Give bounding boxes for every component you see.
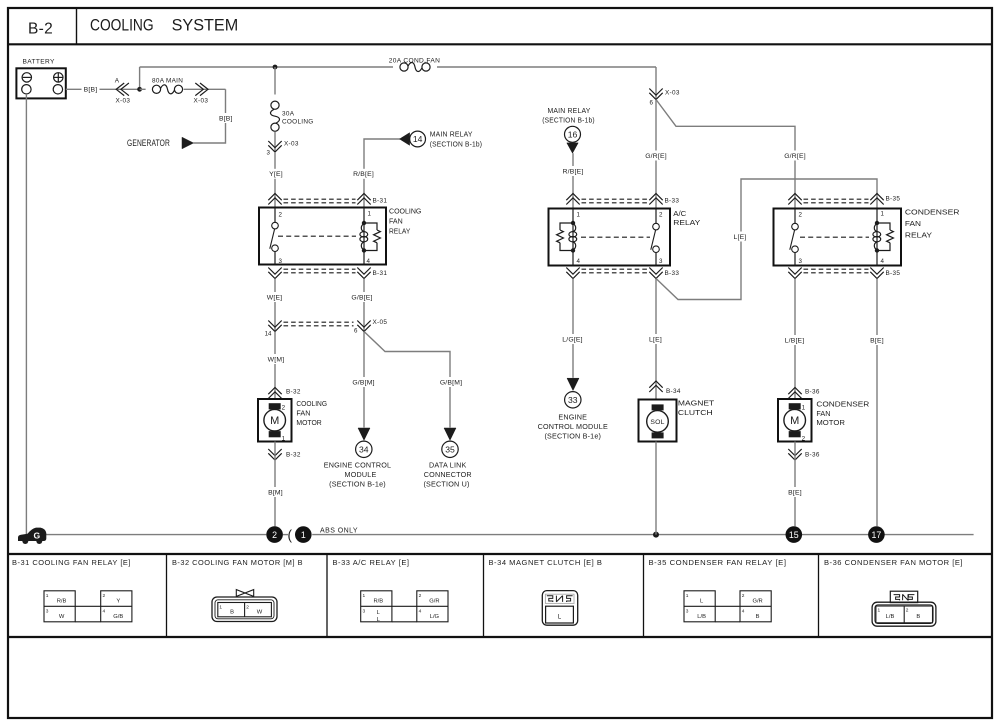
connector section bottom divider xyxy=(8,636,992,638)
battery negative terminal xyxy=(22,73,31,82)
connector X-03 chevron top right xyxy=(649,89,662,100)
connector B-31 chevron above relay pin 1 xyxy=(357,194,370,205)
connector B-36 key tab xyxy=(890,591,917,602)
svg-text:B[B]: B[B] xyxy=(219,115,233,122)
connector B-34 chevron above magnet clutch xyxy=(649,381,662,392)
connector X-03 chevron (battery side) xyxy=(116,83,129,96)
connector B-32 bowtie key xyxy=(236,590,253,597)
svg-text:B-2: B-2 xyxy=(28,21,53,38)
svg-text:COOLING: COOLING xyxy=(90,17,154,35)
wire magnet clutch to ground bus xyxy=(655,442,657,535)
svg-text:4: 4 xyxy=(367,258,371,265)
connector B-33 chevron above A/C relay pin 1 xyxy=(566,194,579,205)
connector B-32 housing xyxy=(212,597,277,622)
relay coil and resistor (condenser pins 1-4) xyxy=(876,209,878,224)
svg-text:1: 1 xyxy=(878,608,881,614)
connector grid left block xyxy=(684,591,715,622)
svg-text:CONDENSER: CONDENSER xyxy=(816,399,869,408)
svg-text:R/B[E]: R/B[E] xyxy=(563,168,584,175)
wire junction to 80A fuse xyxy=(140,88,146,90)
svg-text:R/B[E]: R/B[E] xyxy=(353,171,374,178)
svg-text:B-32 COOLING FAN MOTOR [M] B: B-32 COOLING FAN MOTOR [M] B xyxy=(172,558,303,567)
wire fuse to X-03 chevron xyxy=(274,132,276,153)
svg-text:2: 2 xyxy=(419,593,422,599)
svg-text:Y: Y xyxy=(116,599,120,605)
svg-text:L/G: L/G xyxy=(430,614,440,620)
dashed tie lines of connector B-35 top xyxy=(804,198,869,200)
label G/R[E] right xyxy=(783,151,807,161)
svg-text:3: 3 xyxy=(267,150,271,157)
svg-text:35: 35 xyxy=(445,445,455,455)
ground circle 2 xyxy=(266,526,283,543)
svg-text:2: 2 xyxy=(799,212,803,219)
svg-text:CLUTCH: CLUTCH xyxy=(678,408,713,417)
wire relay pin3 to X-05 xyxy=(274,279,276,332)
connector B-34 housing xyxy=(542,591,577,626)
relay actuation dashed line (A/C) xyxy=(581,236,650,238)
svg-text:4: 4 xyxy=(103,609,106,615)
connector section column divider 4 xyxy=(643,554,645,637)
connector grid bridge lines xyxy=(715,605,740,607)
svg-text:6: 6 xyxy=(354,328,358,335)
arrow into 34 xyxy=(358,428,370,440)
connector section column divider 5 xyxy=(818,554,820,637)
wire pin 4 to ECM 33 xyxy=(572,279,574,378)
svg-text:MAIN RELAY: MAIN RELAY xyxy=(548,106,591,115)
dashed tie lines of connector B-33 bottom xyxy=(582,268,648,270)
label G/B[E] xyxy=(350,292,374,302)
relay actuation dashed line (condenser) xyxy=(800,236,869,238)
connector B-35 chevron below pin 3 xyxy=(788,268,801,279)
svg-text:FAN: FAN xyxy=(816,409,830,418)
node B+ junction dot xyxy=(137,87,142,92)
svg-text:ABS ONLY: ABS ONLY xyxy=(320,525,358,534)
label Y[E] xyxy=(267,169,285,179)
svg-text:1: 1 xyxy=(363,593,366,599)
svg-text:G/R: G/R xyxy=(429,599,439,605)
svg-text:2: 2 xyxy=(282,404,286,411)
dashed tie lines of connector B-31 bottom xyxy=(284,268,356,270)
connector X-03 chevron going down xyxy=(268,141,281,152)
dashed tie lines of connector X-05 xyxy=(284,321,354,323)
svg-text:1: 1 xyxy=(686,593,689,599)
svg-text:G/R[E]: G/R[E] xyxy=(784,153,806,160)
svg-text:G/R: G/R xyxy=(752,599,762,605)
svg-text:L[E]: L[E] xyxy=(649,336,662,343)
svg-text:L/B[E]: L/B[E] xyxy=(785,337,805,344)
svg-text:3: 3 xyxy=(686,609,689,615)
dashed tie lines of connector B-31 top xyxy=(284,198,356,200)
title bar vertical divider xyxy=(76,8,78,44)
battery lower-left post xyxy=(22,85,31,94)
label G/B[M] right xyxy=(439,377,464,387)
connector B-33 chevron below pin 3 xyxy=(649,268,662,279)
svg-text:B-32: B-32 xyxy=(286,388,301,395)
battery positive terminal xyxy=(54,73,63,82)
svg-text:G: G xyxy=(33,530,40,540)
connector B-32 cells xyxy=(218,603,272,617)
motor CONDENSER FAN MOTOR xyxy=(778,399,812,442)
label B[B] on battery wire xyxy=(82,84,100,94)
svg-text:MODULE: MODULE xyxy=(345,470,377,479)
svg-text:MAIN RELAY: MAIN RELAY xyxy=(430,130,473,139)
wire riser from B+ junction up to bus xyxy=(139,67,141,89)
label B[M] xyxy=(266,487,285,497)
svg-text:(SECTION U): (SECTION U) xyxy=(423,480,469,489)
label L[E] magnet clutch xyxy=(647,334,664,344)
relay box A/C RELAY xyxy=(549,209,671,266)
connector X-05 chevron left (pin 14) xyxy=(268,321,281,332)
relay box CONDENSER FAN RELAY xyxy=(774,209,902,266)
svg-text:RELAY: RELAY xyxy=(905,230,932,239)
wire branch X-03 pin6 to condenser relay switch xyxy=(656,100,795,209)
svg-text:L[E]: L[E] xyxy=(734,234,747,241)
svg-text:CONDENSER: CONDENSER xyxy=(905,208,960,217)
svg-text:33: 33 xyxy=(568,395,578,405)
svg-text:B-32: B-32 xyxy=(286,451,301,458)
svg-text:34: 34 xyxy=(359,445,369,455)
wire branch from X-05 pin 6 to data link connector xyxy=(364,332,450,428)
svg-text:4: 4 xyxy=(577,258,581,265)
svg-text:X-03: X-03 xyxy=(194,98,209,105)
svg-text:2: 2 xyxy=(272,530,277,540)
svg-text:B: B xyxy=(230,610,234,616)
svg-text:B-36 CONDENSER FAN MOTOR [E]: B-36 CONDENSER FAN MOTOR [E] xyxy=(824,558,963,567)
svg-text:3: 3 xyxy=(799,258,803,265)
svg-text:GENERATOR: GENERATOR xyxy=(127,138,170,148)
connector B-31 chevron above relay pin 2 xyxy=(268,194,281,205)
connector section column divider 2 xyxy=(326,554,328,637)
svg-text:MOTOR: MOTOR xyxy=(816,418,845,427)
fuse 20A COND.FAN xyxy=(400,63,408,71)
svg-text:3: 3 xyxy=(659,258,663,265)
connector grid bridge lines xyxy=(75,605,101,607)
svg-text:(SECTION B-1b): (SECTION B-1b) xyxy=(542,115,595,124)
connector B-36 chevron above motor xyxy=(788,388,801,399)
connector section top divider xyxy=(8,553,992,555)
svg-text:L/B: L/B xyxy=(886,614,895,620)
svg-text:L/G[E]: L/G[E] xyxy=(562,336,582,343)
label R/B[E] xyxy=(352,169,376,179)
wire bus right corner down to X-03 xyxy=(655,67,657,100)
label B[E] (motor ground) xyxy=(786,487,804,497)
svg-text:2: 2 xyxy=(906,608,909,614)
svg-text:M: M xyxy=(270,415,279,427)
svg-text:SYSTEM: SYSTEM xyxy=(172,17,239,35)
svg-text:M: M xyxy=(790,415,799,427)
relay coil and resistor (pins 1-4) xyxy=(363,208,365,224)
ground bus line left of circle 2 xyxy=(46,534,266,536)
svg-text:2: 2 xyxy=(246,604,249,610)
label G/B[M] left xyxy=(351,377,376,387)
connector B-35 chevron above condenser relay pin 1 xyxy=(870,194,883,205)
connector B-31 chevron below pin 3 xyxy=(268,268,281,279)
main relay 16 arrow (triangle pointing down) xyxy=(567,143,578,153)
svg-text:80A MAIN: 80A MAIN xyxy=(152,77,183,84)
svg-text:(: ( xyxy=(288,528,293,543)
svg-text:15: 15 xyxy=(789,530,799,540)
svg-text:B-35: B-35 xyxy=(886,270,901,277)
connector grid right block xyxy=(417,591,448,622)
connector X-05 chevron right (pin 6) xyxy=(357,321,370,332)
wire motor to ground circle 15 xyxy=(794,442,796,527)
svg-text:SOL: SOL xyxy=(650,419,664,426)
connector grid right block xyxy=(740,591,771,622)
svg-text:MAGNET: MAGNET xyxy=(678,399,715,408)
dashed tie lines of connector B-33 top xyxy=(582,198,648,200)
relay actuation dashed line xyxy=(278,235,356,237)
svg-text:6: 6 xyxy=(650,99,654,106)
svg-text:MOTOR: MOTOR xyxy=(296,418,321,427)
svg-text:2: 2 xyxy=(742,593,745,599)
svg-text:CONNECTOR: CONNECTOR xyxy=(424,470,472,479)
svg-text:B-36: B-36 xyxy=(805,388,820,395)
svg-text:G/B[M]: G/B[M] xyxy=(352,379,374,386)
label L[E] riser xyxy=(732,232,749,242)
symbol circle 33 ENGINE CONTROL MODULE xyxy=(565,392,581,408)
svg-text:CONTROL MODULE: CONTROL MODULE xyxy=(538,422,608,431)
svg-text:2: 2 xyxy=(103,593,106,599)
svg-text:L: L xyxy=(558,614,562,621)
wire motor to ground circle 2 xyxy=(274,442,276,527)
connector B-35 chevron above condenser relay pin 2 xyxy=(788,194,801,205)
symbol circle 14 MAIN RELAY xyxy=(410,131,426,147)
connector grid left block xyxy=(44,591,75,622)
label G/R[E] left xyxy=(644,151,668,161)
connector B-33 chevron below pin 4 xyxy=(566,268,579,279)
svg-text:B: B xyxy=(916,614,920,620)
svg-text:COOLING: COOLING xyxy=(296,399,327,408)
svg-text:B-33: B-33 xyxy=(665,270,680,277)
fuse 30A COOLING xyxy=(271,101,279,109)
connector B-34 terminal cell L xyxy=(546,606,574,623)
svg-text:1: 1 xyxy=(802,404,806,411)
svg-text:B[M]: B[M] xyxy=(268,489,283,496)
relay switch (condenser pins 2-3) xyxy=(794,209,796,224)
svg-text:G/B: G/B xyxy=(113,614,123,620)
svg-text:2: 2 xyxy=(802,435,806,442)
svg-text:DATA LINK: DATA LINK xyxy=(429,460,466,469)
svg-text:1: 1 xyxy=(219,604,222,610)
connector B-36 chevron below motor xyxy=(788,449,801,460)
svg-text:1: 1 xyxy=(282,435,286,442)
svg-text:X-03: X-03 xyxy=(665,89,680,96)
node junction dot on bus at cooling branch xyxy=(273,65,278,70)
svg-text:3: 3 xyxy=(46,609,49,615)
svg-text:1: 1 xyxy=(46,593,49,599)
wire generator feed: down and left to generator xyxy=(194,89,226,143)
wire battery negative to ground bus xyxy=(25,94,27,534)
label B[B] on generator wire xyxy=(217,113,235,123)
battery box xyxy=(16,68,65,98)
svg-text:20A COND.FAN: 20A COND.FAN xyxy=(389,57,440,64)
svg-text:1: 1 xyxy=(881,211,885,218)
label B[E] (relay ground) xyxy=(868,335,886,345)
ground symbol G (body ground car icon) xyxy=(18,528,46,544)
connector section column divider 3 xyxy=(483,554,485,637)
node junction dot magnet clutch to bus xyxy=(653,532,659,538)
svg-text:3: 3 xyxy=(363,609,366,615)
relay switch (pins 2-3) xyxy=(274,208,276,223)
arrow into 33 xyxy=(567,378,579,390)
svg-text:COOLING: COOLING xyxy=(282,118,314,125)
svg-text:4: 4 xyxy=(419,609,422,615)
svg-text:X-03: X-03 xyxy=(116,98,131,105)
svg-text:BATTERY: BATTERY xyxy=(23,59,56,66)
svg-text:(SECTION B-1b): (SECTION B-1b) xyxy=(430,140,483,149)
svg-text:B[E]: B[E] xyxy=(788,489,802,496)
symbol circle 35 DATA LINK CONNECTOR xyxy=(442,441,458,457)
wire relay pin4 to X-05 xyxy=(363,279,365,332)
wire X-05 pin6 straight down to ECM 34 xyxy=(363,332,365,428)
svg-text:FAN: FAN xyxy=(296,409,310,418)
connector B-34 key strip xyxy=(545,594,574,603)
svg-text:1: 1 xyxy=(577,212,581,219)
relay coil and resistor (A/C pins 1-4) xyxy=(572,209,574,224)
label L/B[E] xyxy=(783,335,806,345)
svg-text:B-34: B-34 xyxy=(666,388,681,395)
ground circle 15 xyxy=(786,526,803,543)
svg-text:A/C: A/C xyxy=(673,209,686,218)
connector X-03 chevron (generator side) xyxy=(195,83,208,96)
svg-text:FAN: FAN xyxy=(905,219,921,228)
svg-text:B: B xyxy=(756,614,760,620)
svg-text:B-31: B-31 xyxy=(373,197,388,204)
svg-text:G/B[M]: G/B[M] xyxy=(440,379,462,386)
svg-text:G/R[E]: G/R[E] xyxy=(645,153,667,160)
svg-text:X-03: X-03 xyxy=(284,140,299,147)
wire top bus from battery riser to 20A fuse xyxy=(140,66,393,68)
svg-text:W: W xyxy=(257,610,263,616)
svg-text:B-31: B-31 xyxy=(373,270,388,277)
svg-text:RELAY: RELAY xyxy=(673,218,700,227)
relay switch (A/C pins 2-3) xyxy=(655,209,657,224)
connector section column divider 1 xyxy=(166,554,168,637)
svg-text:B-34 MAGNET CLUTCH [E] B: B-34 MAGNET CLUTCH [E] B xyxy=(489,558,603,567)
svg-text:W: W xyxy=(59,614,65,620)
dashed tie lines of connector B-35 bottom xyxy=(804,268,869,270)
label W[M] xyxy=(266,354,287,364)
wire top bus from 20A fuse to right corner xyxy=(437,66,656,68)
connector B-36 housing xyxy=(872,602,936,626)
svg-text:16: 16 xyxy=(568,130,578,140)
wire pin 4 to ground circle 17 xyxy=(876,279,878,527)
connector B-33 chevron above A/C relay pin 2 xyxy=(649,194,662,205)
svg-text:14: 14 xyxy=(413,134,423,144)
svg-text:R/B: R/B xyxy=(373,599,383,605)
wire bus to 30A fuse xyxy=(274,67,276,95)
connector B-32 chevron above motor xyxy=(268,388,281,399)
symbol circle 34 ENGINE CONTROL MODULE xyxy=(356,441,372,457)
svg-text:B[E]: B[E] xyxy=(870,337,884,344)
wire X-03 to cooling fan relay pin 2 xyxy=(274,152,276,208)
connector grid right block xyxy=(101,591,132,622)
svg-text:B-35 CONDENSER FAN RELAY [E]: B-35 CONDENSER FAN RELAY [E] xyxy=(649,558,787,567)
svg-text:B-33: B-33 xyxy=(665,197,680,204)
connector B-31 chevron below pin 4 xyxy=(357,268,370,279)
svg-text:L/B: L/B xyxy=(697,614,706,620)
connector grid bridge lines xyxy=(392,605,417,607)
ground bus stub between circle 2 and paren xyxy=(283,534,288,536)
wire branch pin 3 to condenser relay coil (L[E] riser) xyxy=(656,179,877,300)
svg-text:14: 14 xyxy=(265,331,272,338)
symbol circle 16 MAIN RELAY xyxy=(565,126,581,142)
svg-text:COOLING: COOLING xyxy=(389,207,422,216)
motor COOLING FAN MOTOR xyxy=(258,399,292,442)
svg-text:(SECTION B-1e): (SECTION B-1e) xyxy=(329,480,386,489)
svg-text:ENGINE CONTROL: ENGINE CONTROL xyxy=(324,460,392,469)
wire X-05 to cooling fan motor xyxy=(274,332,276,400)
wire main relay feed to relay pin 1 xyxy=(364,139,400,208)
connector B-32 chevron below motor xyxy=(268,449,281,460)
connector B-36 cells xyxy=(876,606,933,623)
label R/B[E] (A/C) xyxy=(561,166,585,176)
svg-text:G/B[E]: G/B[E] xyxy=(351,294,372,301)
svg-text:B-35: B-35 xyxy=(886,195,901,202)
wire fuse to X-03 chevron xyxy=(184,88,226,90)
wire pin 3 to condenser fan motor xyxy=(794,279,796,400)
svg-text:A: A xyxy=(115,77,120,84)
svg-text:4: 4 xyxy=(742,609,745,615)
main relay arrow (triangle pointing left) xyxy=(400,133,410,146)
ground bus line right of circle 1 (ABS ONLY net) xyxy=(312,534,973,536)
svg-text:4: 4 xyxy=(881,258,885,265)
battery lower-right post xyxy=(53,85,62,94)
connector B-35 chevron below pin 4 xyxy=(870,268,883,279)
wire pin 3 down to magnet clutch xyxy=(655,279,657,400)
svg-text:X-05: X-05 xyxy=(373,319,388,326)
svg-text:B-31 COOLING FAN RELAY [E]: B-31 COOLING FAN RELAY [E] xyxy=(12,558,131,567)
wire X-03 down to A/C relay pin 2 xyxy=(655,100,657,209)
relay box COOLING FAN RELAY xyxy=(259,208,386,265)
svg-text:1: 1 xyxy=(368,211,372,218)
wire battery B+ to connector X-03 xyxy=(66,88,140,90)
svg-text:B[B]: B[B] xyxy=(84,87,98,94)
svg-text:RELAY: RELAY xyxy=(389,226,410,235)
svg-text:W[E]: W[E] xyxy=(267,294,283,301)
magnet clutch box xyxy=(639,400,677,442)
svg-text:1: 1 xyxy=(301,530,306,540)
svg-text:30A: 30A xyxy=(282,110,295,117)
svg-text:B-33 A/C RELAY [E]: B-33 A/C RELAY [E] xyxy=(333,558,410,567)
svg-text:ENGINE: ENGINE xyxy=(558,412,587,421)
svg-text:FAN: FAN xyxy=(389,217,403,226)
svg-text:3: 3 xyxy=(279,258,283,265)
connector grid left block xyxy=(361,591,392,622)
svg-text:Y[E]: Y[E] xyxy=(269,171,283,178)
label W[E] xyxy=(265,292,285,302)
svg-text:2: 2 xyxy=(279,212,283,219)
ground circle 17 xyxy=(868,526,885,543)
svg-text:2: 2 xyxy=(659,212,663,219)
wire 16 to A/C relay pin 1 xyxy=(572,153,574,208)
generator arrow (filled triangle) xyxy=(182,137,194,149)
magnet clutch solenoid xyxy=(652,404,664,410)
label L/G[E] xyxy=(561,334,585,344)
svg-text:B-36: B-36 xyxy=(805,451,820,458)
title bar divider line xyxy=(8,43,992,45)
svg-text:17: 17 xyxy=(872,530,882,540)
svg-text:R/B: R/B xyxy=(57,599,67,605)
fuse 80A MAIN xyxy=(152,85,160,93)
ground circle 1 xyxy=(295,526,312,543)
svg-text:(SECTION B-1e): (SECTION B-1e) xyxy=(544,431,601,440)
arrow into 35 xyxy=(444,428,456,440)
svg-text:W[M]: W[M] xyxy=(268,356,285,363)
